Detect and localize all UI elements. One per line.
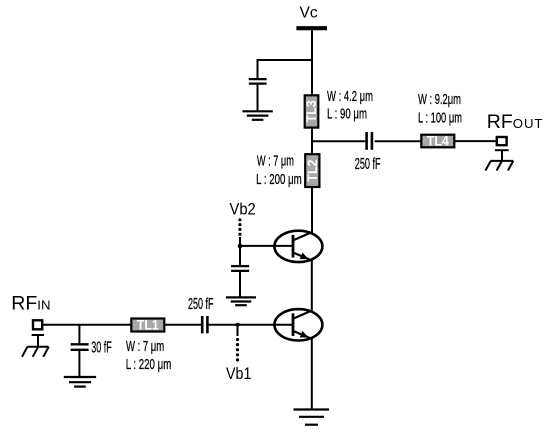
svg-text:30 fF: 30 fF: [91, 339, 112, 356]
svg-text:L : 90 μm: L : 90 μm: [327, 106, 367, 122]
svg-text:250 fF: 250 fF: [355, 156, 381, 173]
svg-text:250 fF: 250 fF: [188, 296, 214, 313]
svg-text:L : 100 μm: L : 100 μm: [418, 111, 462, 127]
svg-text:TL4: TL4: [427, 134, 449, 149]
svg-text:TL1: TL1: [137, 318, 159, 333]
svg-text:W : 4.2 μm: W : 4.2 μm: [327, 89, 373, 105]
svg-text:L : 200 μm: L : 200 μm: [256, 172, 302, 188]
svg-text:Vc: Vc: [300, 5, 318, 22]
svg-text:Vb1: Vb1: [226, 365, 251, 383]
svg-text:W : 7 μm: W : 7 μm: [257, 154, 294, 170]
svg-text:TL2: TL2: [305, 160, 320, 182]
svg-text:W : 9.2μm: W : 9.2μm: [418, 92, 461, 108]
svg-text:L : 220 μm: L : 220 μm: [126, 357, 172, 373]
svg-text:Vb2: Vb2: [230, 200, 256, 218]
svg-text:W : 7 μm: W : 7 μm: [126, 339, 164, 355]
svg-text:TL3: TL3: [304, 100, 319, 122]
